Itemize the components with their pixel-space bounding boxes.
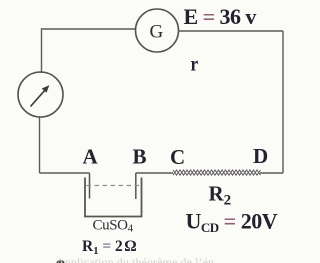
svg-text:E = 36 v: E = 36 v xyxy=(184,4,257,29)
svg-text:A: A xyxy=(83,145,99,169)
electrode right (node B) xyxy=(135,173,137,199)
electrolysis container (CuSO4 cell) xyxy=(85,178,142,217)
svg-text:r: r xyxy=(191,53,199,76)
resistor R2 zigzag xyxy=(173,170,261,175)
wire: bottom-left horizontal xyxy=(40,172,90,174)
wire: top-right horizontal xyxy=(179,30,284,32)
electrode left (node A) xyxy=(89,173,91,199)
wire: left vertical lower xyxy=(39,118,41,174)
svg-text:C: C xyxy=(170,145,185,169)
wire: top-left run from G to left vertical down to ammeter xyxy=(42,29,136,73)
generator G circle xyxy=(136,9,179,52)
wire: B to C segment xyxy=(136,172,173,174)
ammeter needle arrow xyxy=(31,86,50,107)
dark ink blob at bottom edge xyxy=(57,260,65,263)
svg-text:D: D xyxy=(253,144,268,168)
svg-text:Application du théorème de l’é: Application du théorème de l’én xyxy=(56,255,214,263)
svg-text:G: G xyxy=(150,22,164,43)
wire: bottom-right horizontal to resistor xyxy=(260,172,283,174)
svg-text:B: B xyxy=(133,145,147,169)
liquid level dashed line xyxy=(87,185,141,187)
ammeter circle xyxy=(18,72,63,117)
svg-text:UCD = 20V: UCD = 20V xyxy=(186,209,278,236)
svg-text:CuSO4: CuSO4 xyxy=(93,218,134,235)
wire: right vertical xyxy=(282,31,284,173)
